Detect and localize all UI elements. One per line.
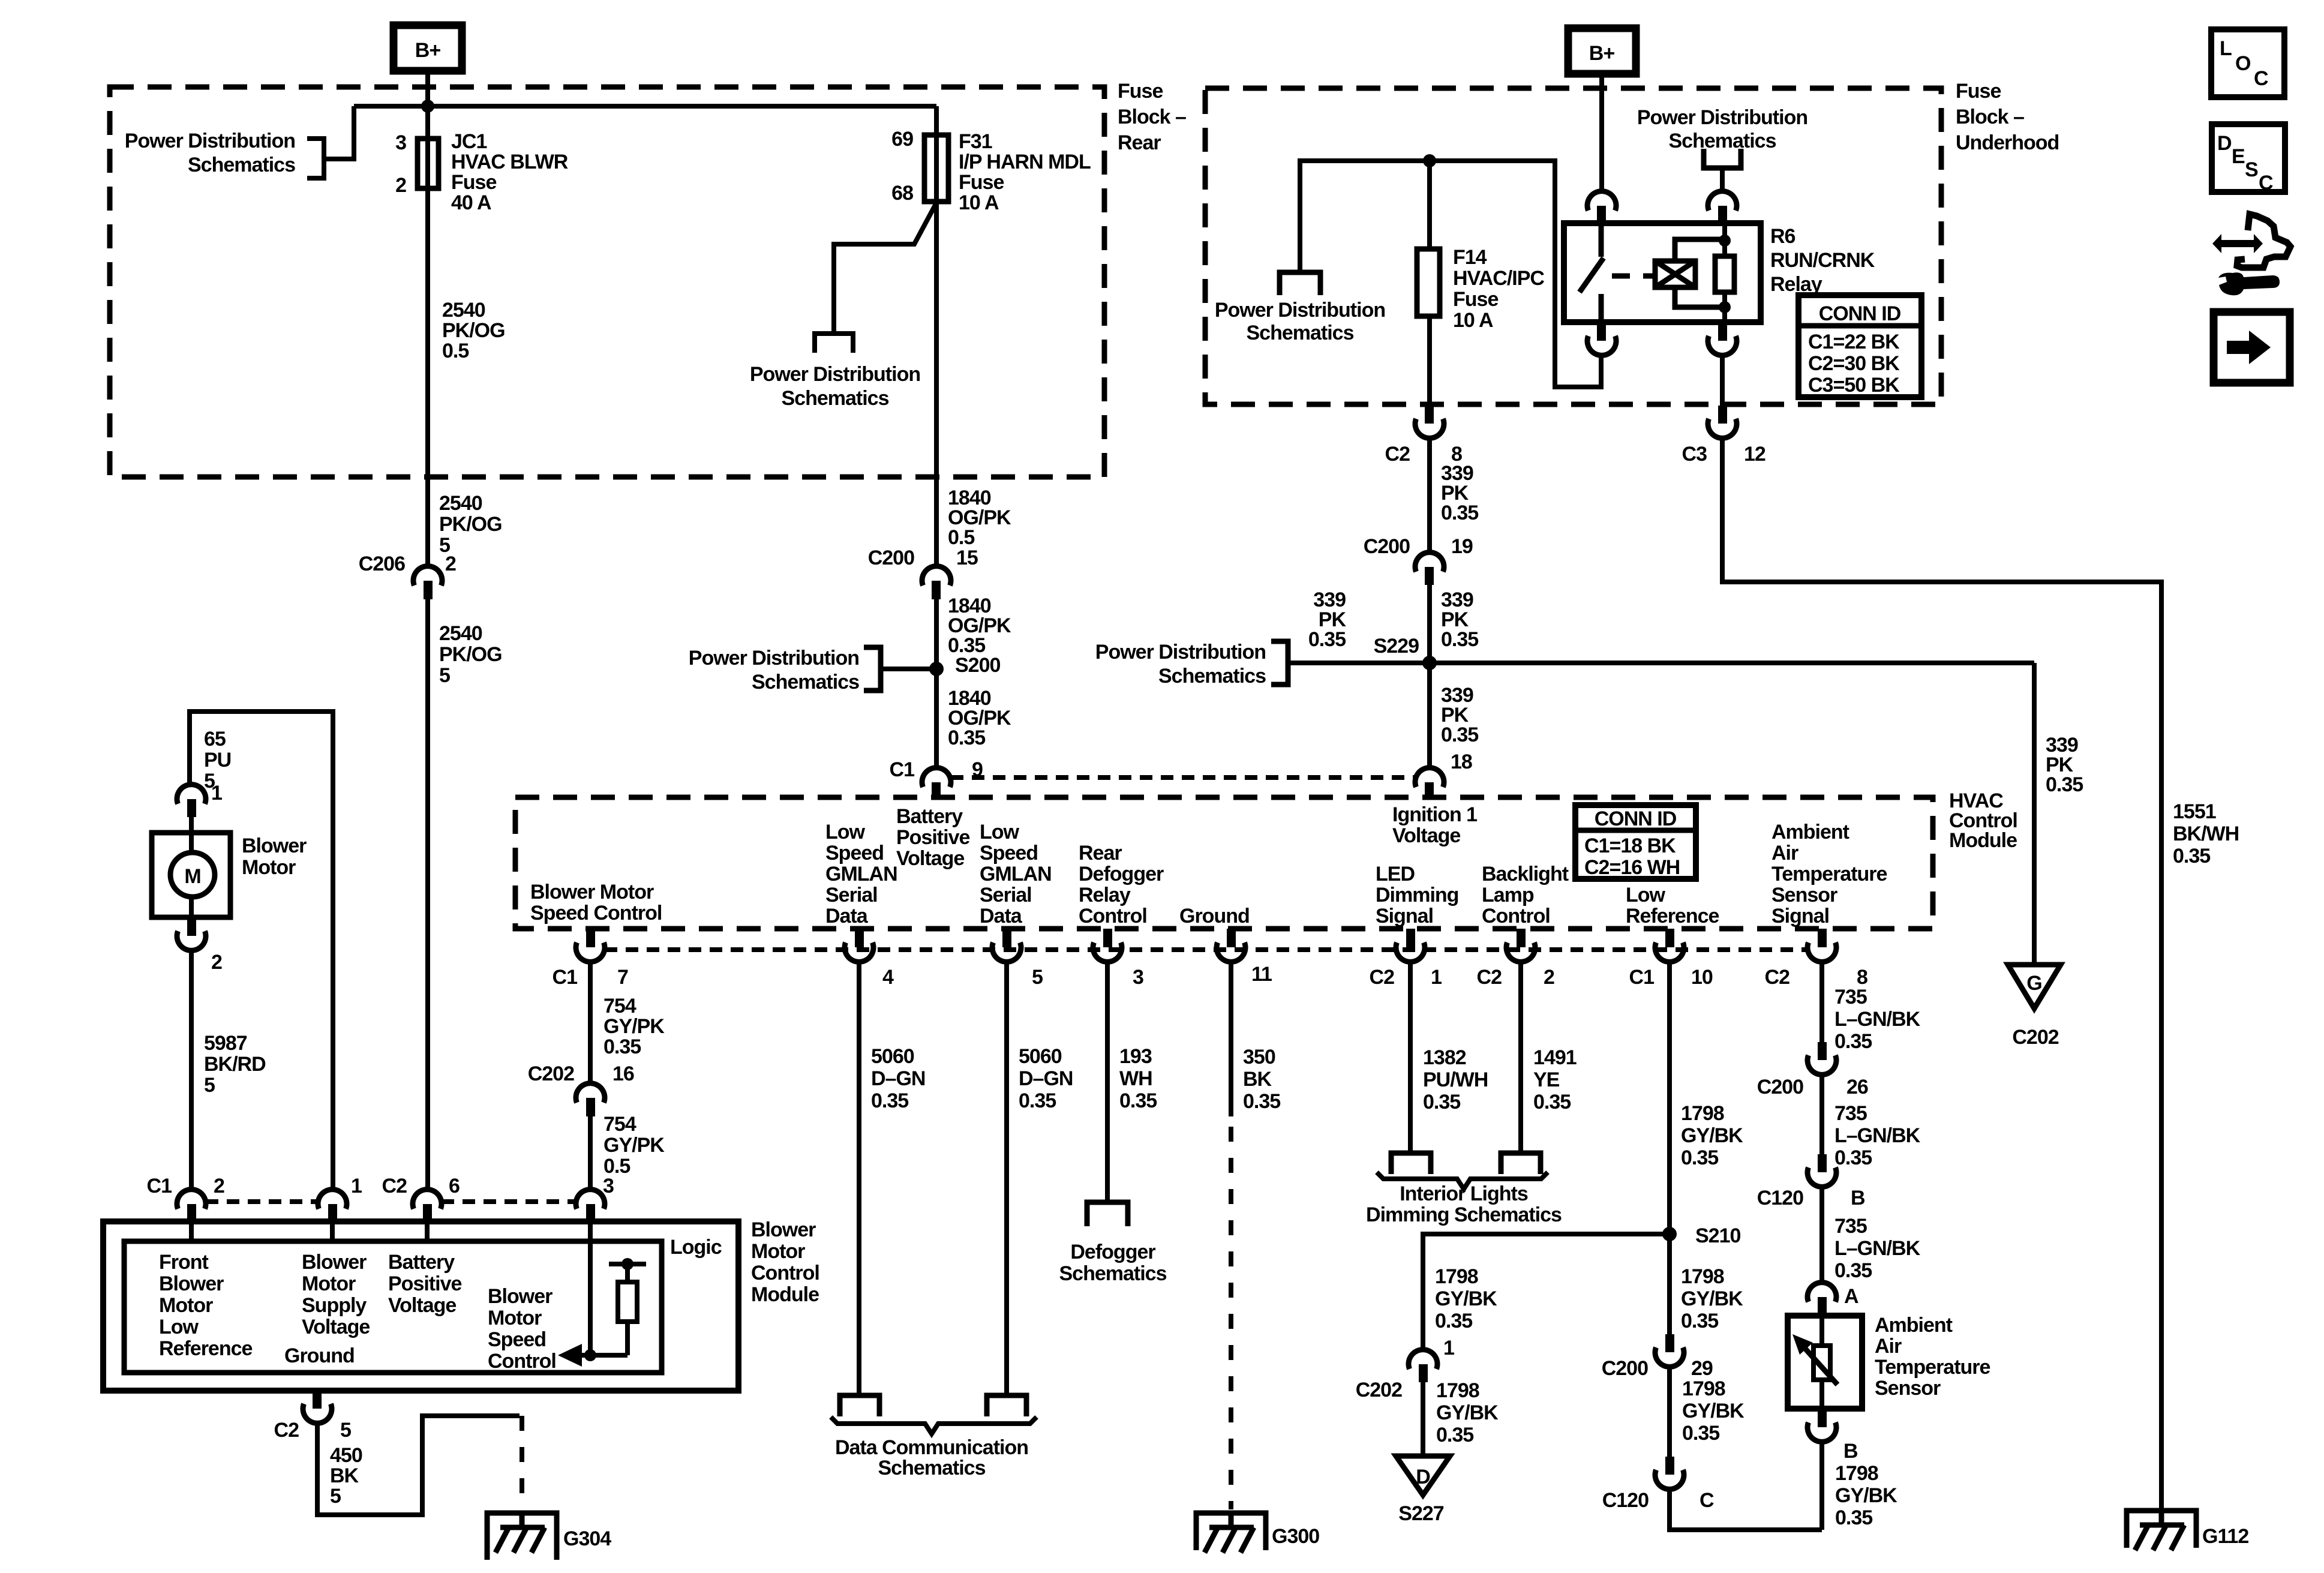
relay resistor xyxy=(1715,256,1734,292)
wire S210 branch left and down xyxy=(1423,1234,1670,1351)
svg-text:Blower: Blower xyxy=(488,1285,553,1308)
svg-text:Speed Control: Speed Control xyxy=(530,902,662,924)
DESC box icon xyxy=(2212,124,2285,192)
wire C120-B to sensor pin A xyxy=(1819,1187,1824,1284)
dotted connector line (top edge) xyxy=(951,775,1415,780)
relay switch blade xyxy=(1580,258,1604,292)
svg-text:BK: BK xyxy=(1243,1068,1272,1091)
svg-text:C200: C200 xyxy=(868,547,914,569)
ground G304 xyxy=(487,1513,557,1560)
connector pin module pin 3 xyxy=(586,1204,595,1221)
relay bottom left pin xyxy=(1597,322,1606,341)
svg-text:Power Distribution: Power Distribution xyxy=(1095,641,1266,664)
svg-text:69: 69 xyxy=(891,128,913,151)
svg-text:PK/OG: PK/OG xyxy=(439,513,502,536)
svg-text:1551: 1551 xyxy=(2173,800,2216,823)
svg-text:4: 4 xyxy=(882,966,894,989)
svg-text:0.5: 0.5 xyxy=(442,340,469,362)
svg-text:Low: Low xyxy=(980,821,1020,843)
svg-text:HVAC BLWR: HVAC BLWR xyxy=(451,151,568,173)
off-page bracket backlight xyxy=(1501,1153,1541,1174)
svg-text:5: 5 xyxy=(340,1419,351,1442)
connector cup HVAC C2-8 xyxy=(1807,942,1836,962)
svg-text:S229: S229 xyxy=(1374,635,1419,658)
svg-text:Dimming Schematics: Dimming Schematics xyxy=(1366,1203,1562,1226)
svg-text:C: C xyxy=(2254,67,2268,90)
blower motor box xyxy=(152,833,230,917)
wire resistor to bottom rail xyxy=(625,1322,630,1355)
svg-text:WH: WH xyxy=(1119,1067,1152,1090)
svg-text:26: 26 xyxy=(1846,1076,1868,1098)
wire F31 down xyxy=(934,106,939,568)
svg-text:B: B xyxy=(1843,1440,1858,1463)
dotted connector line module top (C2 section) xyxy=(442,1199,576,1204)
wire B+ to relay switch pin xyxy=(1599,74,1604,193)
wire ground 11 solid part xyxy=(1229,962,1233,1116)
dotted connector line module top (C1 section) xyxy=(206,1199,318,1204)
svg-text:16: 16 xyxy=(612,1062,634,1085)
svg-text:1: 1 xyxy=(211,782,222,804)
svg-text:735: 735 xyxy=(1834,986,1867,1008)
svg-text:Block –: Block – xyxy=(1956,106,2024,128)
svg-text:C2=30 BK: C2=30 BK xyxy=(1808,352,1900,375)
svg-text:L–GN/BK: L–GN/BK xyxy=(1834,1237,1921,1260)
connector cup HVAC 5 xyxy=(992,942,1021,962)
connector cup module ground C2-5 xyxy=(303,1404,332,1423)
wire C200-29 to C120-C xyxy=(1667,1367,1672,1457)
connector pin HVAC C1-10 xyxy=(1665,929,1674,947)
svg-text:C1: C1 xyxy=(890,758,915,781)
wire C200-26 to C120-B xyxy=(1819,1074,1824,1154)
svg-text:G112: G112 xyxy=(2202,1525,2248,1548)
svg-text:C1: C1 xyxy=(553,966,578,989)
svg-text:Speed: Speed xyxy=(825,842,884,864)
svg-text:2: 2 xyxy=(211,951,222,974)
connector pin module C1-2 xyxy=(187,1204,196,1221)
svg-text:0.5: 0.5 xyxy=(948,526,974,549)
wire F14 down to box edge xyxy=(1427,316,1432,406)
dashed wire to G304 xyxy=(520,1416,524,1509)
dotted connector line (bottom edge) xyxy=(605,947,1807,952)
svg-text:Schematics: Schematics xyxy=(782,387,889,410)
connector cup HVAC C1-7 xyxy=(576,942,605,962)
svg-text:M: M xyxy=(184,865,200,888)
svg-text:Speed: Speed xyxy=(488,1328,546,1351)
svg-text:Reference: Reference xyxy=(1626,905,1719,927)
svg-text:B+: B+ xyxy=(1589,42,1615,65)
svg-text:Fuse: Fuse xyxy=(1956,80,2001,103)
svg-text:GY/BK: GY/BK xyxy=(1835,1484,1897,1507)
fuse F14 HVAC/IPC 10A xyxy=(1417,249,1440,316)
S227 splice triangle D xyxy=(1396,1456,1450,1495)
off-page bracket LED dimming xyxy=(1391,1153,1431,1174)
connector pin module ground C2-5 xyxy=(313,1391,322,1409)
relay bottom left cup xyxy=(1587,336,1616,355)
svg-text:G: G xyxy=(2026,972,2041,995)
connector C200-26 cup xyxy=(1807,1055,1836,1074)
off-page bracket defogger xyxy=(1087,1202,1128,1226)
svg-text:3: 3 xyxy=(1133,966,1143,989)
relay switch lower stub xyxy=(1599,294,1604,322)
svg-text:Battery: Battery xyxy=(896,805,963,828)
wire C2-8 down xyxy=(1819,962,1824,1042)
svg-text:Data: Data xyxy=(825,905,869,927)
connector cup blower motor pin 2 xyxy=(177,931,206,950)
svg-text:L–GN/BK: L–GN/BK xyxy=(1834,1008,1921,1031)
relay switch xyxy=(1599,223,1604,257)
relay actuator dashed link xyxy=(1612,274,1655,279)
svg-text:LED: LED xyxy=(1376,863,1415,885)
svg-text:18: 18 xyxy=(1451,751,1472,773)
svg-text:C1=18 BK: C1=18 BK xyxy=(1584,834,1676,857)
wire S210 down xyxy=(1667,1234,1672,1334)
svg-text:2540: 2540 xyxy=(439,492,482,515)
svg-text:5987: 5987 xyxy=(204,1032,247,1055)
connector C200-26 pin xyxy=(1818,1042,1827,1060)
blower motor M circle xyxy=(170,852,215,897)
svg-text:Ground: Ground xyxy=(284,1344,355,1367)
svg-text:C202: C202 xyxy=(528,1062,574,1085)
svg-text:Air: Air xyxy=(1771,842,1798,864)
svg-text:0.35: 0.35 xyxy=(1308,628,1346,651)
svg-text:Ground: Ground xyxy=(1179,905,1250,927)
svg-text:C2: C2 xyxy=(274,1419,299,1442)
svg-text:7: 7 xyxy=(617,966,628,989)
svg-text:0.35: 0.35 xyxy=(1834,1030,1872,1053)
connector C200-29 pin xyxy=(1665,1334,1674,1352)
svg-text:0.35: 0.35 xyxy=(1681,1146,1718,1169)
wire GMLAN 5 down xyxy=(1004,962,1009,1395)
svg-text:Logic: Logic xyxy=(670,1236,722,1259)
svg-text:1491: 1491 xyxy=(1533,1046,1577,1069)
wire C202 to S227 xyxy=(1421,1382,1425,1456)
wire relay right to box edge xyxy=(1720,355,1725,406)
svg-text:10 A: 10 A xyxy=(1453,309,1493,332)
svg-text:Blower: Blower xyxy=(302,1251,367,1274)
svg-text:1798: 1798 xyxy=(1682,1377,1725,1400)
wire ground 11 dashed part xyxy=(1229,1127,1233,1509)
svg-text:0.35: 0.35 xyxy=(1533,1091,1571,1113)
svg-text:Low: Low xyxy=(159,1316,199,1338)
svg-text:D: D xyxy=(2217,132,2232,155)
svg-text:C120: C120 xyxy=(1757,1187,1803,1209)
wire relay switch output to fuse node xyxy=(1300,161,1601,387)
connector pin HVAC 5 xyxy=(1002,929,1011,947)
svg-text:19: 19 xyxy=(1451,535,1473,558)
svg-text:Sensor: Sensor xyxy=(1875,1377,1941,1400)
svg-text:B+: B+ xyxy=(415,39,441,62)
svg-text:0.35: 0.35 xyxy=(1441,628,1478,651)
connector dome module pin 3 xyxy=(576,1190,605,1209)
svg-text:10: 10 xyxy=(1691,966,1713,989)
wire bus to F31 xyxy=(354,104,936,109)
svg-text:PU/WH: PU/WH xyxy=(1423,1068,1488,1091)
pin stub C1-2 into logic xyxy=(189,1221,194,1241)
junction dot coil top xyxy=(1719,235,1731,247)
wire blower motor supply loop xyxy=(190,712,333,1188)
svg-text:C3=50 BK: C3=50 BK xyxy=(1808,374,1900,397)
svg-text:C1: C1 xyxy=(1629,966,1655,989)
relay coil X diagonal 1 xyxy=(1655,261,1695,287)
wire LED dimming C2-1 down xyxy=(1408,962,1413,1153)
svg-text:0.35: 0.35 xyxy=(1681,1310,1718,1332)
svg-text:Power Distribution: Power Distribution xyxy=(125,130,295,152)
svg-text:Voltage: Voltage xyxy=(896,847,964,870)
svg-text:BK/RD: BK/RD xyxy=(204,1053,266,1076)
svg-text:11: 11 xyxy=(1251,963,1272,986)
off-page bracket S200 xyxy=(864,647,881,691)
svg-text:C2: C2 xyxy=(382,1175,407,1197)
wire GMLAN 4 down xyxy=(857,962,861,1395)
svg-text:0.35: 0.35 xyxy=(871,1089,908,1112)
svg-text:Schematics: Schematics xyxy=(752,671,859,694)
svg-text:Voltage: Voltage xyxy=(1392,824,1460,847)
svg-text:Motor: Motor xyxy=(242,856,296,879)
svg-text:2: 2 xyxy=(395,174,406,197)
svg-text:Fuse: Fuse xyxy=(959,171,1004,194)
svg-text:754: 754 xyxy=(603,995,636,1017)
svg-text:Module: Module xyxy=(1949,829,2017,852)
connector dome HVAC C1-9 xyxy=(922,768,951,787)
svg-text:Block –: Block – xyxy=(1118,106,1186,128)
svg-text:F31: F31 xyxy=(959,130,992,153)
off-page bracket under F31 branch xyxy=(815,334,853,353)
svg-text:Voltage: Voltage xyxy=(388,1294,456,1317)
svg-text:Module: Module xyxy=(751,1283,819,1306)
svg-text:C2: C2 xyxy=(1765,966,1790,989)
svg-text:2: 2 xyxy=(214,1175,224,1197)
connector pin blower motor pin 1 xyxy=(187,799,196,817)
svg-text:S: S xyxy=(2245,158,2258,181)
svg-text:Battery: Battery xyxy=(388,1251,455,1274)
fuse F31 I/P HARN MDL 10A xyxy=(924,135,948,202)
connector cup HVAC C2-2 xyxy=(1506,942,1535,962)
svg-text:C2: C2 xyxy=(1477,966,1502,989)
svg-text:Temperature: Temperature xyxy=(1875,1356,1990,1379)
wire node to F14 xyxy=(1427,161,1432,249)
junction S210 xyxy=(1662,1227,1677,1241)
svg-text:C3: C3 xyxy=(1682,443,1707,466)
connector cup HVAC C2-1 xyxy=(1396,942,1425,962)
junction dot top bar xyxy=(621,1258,633,1270)
connector C120-C pin xyxy=(1665,1457,1674,1475)
svg-text:GMLAN: GMLAN xyxy=(980,863,1052,885)
svg-text:754: 754 xyxy=(603,1113,636,1136)
svg-text:Air: Air xyxy=(1875,1335,1902,1358)
svg-text:5: 5 xyxy=(330,1485,341,1508)
double headed arrow xyxy=(2212,234,2263,253)
svg-text:Lamp: Lamp xyxy=(1482,884,1534,906)
svg-text:I/P HARN MDL: I/P HARN MDL xyxy=(959,151,1091,173)
svg-text:GY/BK: GY/BK xyxy=(1682,1400,1744,1422)
svg-text:F14: F14 xyxy=(1453,246,1487,269)
svg-text:Schematics: Schematics xyxy=(188,154,295,176)
connector C206 pin xyxy=(424,581,433,599)
connector cup HVAC C1-10 xyxy=(1655,942,1684,962)
svg-text:B: B xyxy=(1851,1187,1865,1209)
svg-text:C1=22 BK: C1=22 BK xyxy=(1808,331,1900,353)
svg-text:2540: 2540 xyxy=(442,299,485,322)
svg-text:Temperature: Temperature xyxy=(1771,863,1887,885)
LOC box icon xyxy=(2211,29,2284,97)
svg-text:Control: Control xyxy=(751,1262,819,1284)
connector C120-C cup xyxy=(1655,1470,1684,1489)
wire C202-16 to module pin 3 xyxy=(588,1116,593,1188)
CONN ID table (underhood) xyxy=(1798,295,1921,397)
connector C206 dome xyxy=(413,566,442,586)
wire C2-8 to C200-19 xyxy=(1427,438,1432,553)
relay bottom right pin xyxy=(1718,322,1727,341)
svg-text:0.35: 0.35 xyxy=(603,1035,641,1058)
junction dot coil bottom xyxy=(1719,301,1731,313)
svg-text:E: E xyxy=(2232,145,2245,168)
svg-text:Power Distribution: Power Distribution xyxy=(1637,106,1807,129)
connector cup HVAC 3 xyxy=(1093,942,1122,962)
junction S229 xyxy=(1422,656,1437,670)
connector C200-15 dome xyxy=(922,566,951,586)
connector dome module C2-6 xyxy=(413,1190,442,1209)
junction dot above F14 xyxy=(1423,154,1436,167)
svg-text:Low: Low xyxy=(1626,884,1666,906)
svg-text:5: 5 xyxy=(204,1074,215,1097)
svg-text:Ignition 1: Ignition 1 xyxy=(1392,803,1477,826)
junction S200 xyxy=(929,662,944,676)
svg-text:Serial: Serial xyxy=(825,884,878,906)
svg-text:C200: C200 xyxy=(1602,1357,1648,1380)
connector C200-19 pin xyxy=(1425,567,1434,585)
connector C200-29 cup xyxy=(1655,1347,1684,1367)
connector C200-19 dome xyxy=(1415,553,1444,572)
svg-text:YE: YE xyxy=(1533,1068,1560,1091)
svg-text:29: 29 xyxy=(1691,1357,1713,1380)
connector cup HVAC 4 xyxy=(845,942,873,962)
connector pin relay top right xyxy=(1718,206,1727,224)
svg-text:Backlight: Backlight xyxy=(1482,863,1569,885)
relay coil box xyxy=(1655,261,1695,287)
fuse JC1 HVAC BLWR 40A xyxy=(418,139,439,188)
svg-text:GY/BK: GY/BK xyxy=(1435,1287,1497,1310)
svg-text:6: 6 xyxy=(449,1175,460,1197)
wire C200-15 to HVAC C1-9 xyxy=(934,599,939,769)
svg-text:Defogger: Defogger xyxy=(1079,863,1164,885)
svg-text:C206: C206 xyxy=(359,553,405,575)
relay bottom right cup xyxy=(1708,336,1737,355)
svg-text:CONN ID: CONN ID xyxy=(1819,302,1901,325)
sensor internal wire xyxy=(1819,1316,1824,1409)
off-page bracket S229 xyxy=(1271,641,1288,685)
off-page bracket above relay coil pin xyxy=(1704,149,1741,168)
pin 3 wire into logic xyxy=(588,1221,593,1355)
svg-text:GY/BK: GY/BK xyxy=(1681,1287,1743,1310)
wire B+ to fuse JC1 xyxy=(425,71,430,568)
wire bracket to relay coil pin xyxy=(1720,168,1725,193)
svg-text:Rear: Rear xyxy=(1079,842,1122,864)
svg-text:0.35: 0.35 xyxy=(1834,1146,1872,1169)
connector C120-B pin xyxy=(1818,1154,1827,1172)
svg-text:BK/WH: BK/WH xyxy=(2173,822,2239,845)
connector C202-16 pin xyxy=(586,1098,595,1116)
off-page bracket GMLAN 4 xyxy=(840,1395,879,1416)
svg-text:Control: Control xyxy=(1482,905,1550,927)
connector C200-15 pin xyxy=(932,581,941,599)
svg-text:Data Communication: Data Communication xyxy=(835,1436,1028,1459)
svg-text:C200: C200 xyxy=(1757,1076,1803,1098)
wire sensor B down to return xyxy=(1819,1442,1824,1530)
svg-text:Blower: Blower xyxy=(159,1272,224,1295)
svg-text:PU: PU xyxy=(204,749,231,772)
svg-text:Schematics: Schematics xyxy=(1247,322,1354,344)
wire C1-7 down xyxy=(588,962,593,1083)
svg-text:3: 3 xyxy=(603,1175,614,1197)
svg-text:0.35: 0.35 xyxy=(1423,1091,1460,1113)
connector C120-B cup xyxy=(1807,1167,1836,1187)
arrow box icon xyxy=(2214,312,2290,383)
svg-text:1: 1 xyxy=(1443,1337,1454,1359)
svg-text:GY/PK: GY/PK xyxy=(603,1015,665,1038)
off-page bracket left of F14 xyxy=(1280,272,1320,295)
wire top bar to resistor xyxy=(625,1264,630,1282)
svg-text:0.35: 0.35 xyxy=(948,727,985,749)
connector dome module pin 1 xyxy=(318,1190,347,1209)
svg-text:L: L xyxy=(2220,37,2232,60)
connector dome relay top left pin xyxy=(1587,191,1616,211)
svg-text:Front: Front xyxy=(159,1251,209,1274)
svg-text:Blower: Blower xyxy=(242,834,307,857)
svg-text:15: 15 xyxy=(956,547,978,569)
fuse block underhood dashed box xyxy=(1205,88,1941,404)
connector pin HVAC 11 xyxy=(1227,929,1236,947)
svg-text:Low: Low xyxy=(825,821,866,843)
svg-text:D–GN: D–GN xyxy=(1019,1067,1073,1090)
svg-text:D–GN: D–GN xyxy=(871,1067,925,1090)
svg-text:Schematics: Schematics xyxy=(1059,1262,1167,1285)
svg-text:C200: C200 xyxy=(1364,535,1410,558)
svg-text:C1: C1 xyxy=(147,1175,172,1197)
svg-text:1798: 1798 xyxy=(1435,1265,1478,1288)
connector pin blower motor pin 2 xyxy=(187,917,196,936)
svg-text:1798: 1798 xyxy=(1835,1462,1878,1485)
svg-text:Blower: Blower xyxy=(751,1218,816,1241)
connector pin sensor pin A xyxy=(1818,1297,1827,1316)
off-page bracket (power distribution, left) xyxy=(307,139,324,178)
svg-text:Relay: Relay xyxy=(1079,884,1131,906)
svg-text:65: 65 xyxy=(204,728,226,751)
svg-text:1: 1 xyxy=(351,1175,362,1197)
svg-text:HVAC/IPC: HVAC/IPC xyxy=(1453,267,1544,290)
wire C206 to module pin C2-6 xyxy=(425,599,430,1188)
node junction on B+ feed xyxy=(421,100,434,113)
svg-text:0.35: 0.35 xyxy=(1119,1089,1157,1112)
svg-text:2: 2 xyxy=(445,553,456,575)
svg-text:CONN ID: CONN ID xyxy=(1595,807,1677,830)
svg-text:12: 12 xyxy=(1744,443,1765,466)
svg-text:Defogger: Defogger xyxy=(1070,1241,1155,1263)
pin stub 1 into logic xyxy=(330,1221,335,1241)
svg-text:C: C xyxy=(1700,1489,1714,1512)
svg-text:Control: Control xyxy=(488,1350,556,1373)
svg-text:Motor: Motor xyxy=(751,1240,805,1263)
svg-text:GY/BK: GY/BK xyxy=(1436,1401,1499,1424)
svg-text:Dimming: Dimming xyxy=(1376,884,1458,906)
svg-text:PK/OG: PK/OG xyxy=(442,319,505,342)
svg-text:Supply: Supply xyxy=(302,1294,367,1317)
wire branch diagonal from F31 output xyxy=(834,203,936,331)
HVAC control module dashed box xyxy=(515,797,1933,929)
connector pin HVAC C2-8 xyxy=(1818,929,1827,947)
animal head outline xyxy=(2237,214,2290,268)
svg-text:1798: 1798 xyxy=(1681,1102,1724,1125)
wire HVAC control module ground feed down xyxy=(2032,663,2037,965)
